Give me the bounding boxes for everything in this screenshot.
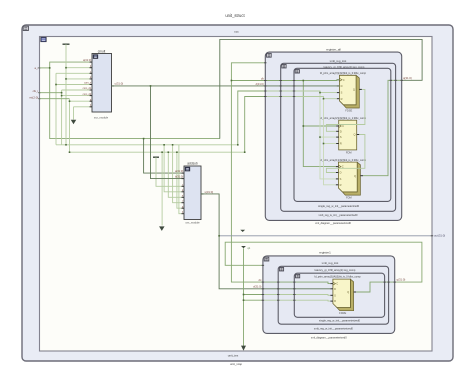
svg-text:ccc: ccc [234,29,239,33]
wire fd3 q to exit [363,80,402,175]
wire r drop inner [324,99,337,144]
svg-text:fd_prim_array(3)(4)(3)bit_is_0: fd_prim_array(3)(4)(3)bit_is_0:fdbx_comp [314,276,361,279]
net flag arrow out [240,230,245,232]
junction y branch [150,85,152,87]
svg-text:s(31:0): s(31:0) [205,190,214,194]
junction clk com_d2 [61,95,63,97]
svg-text:addsub: addsub [187,162,198,166]
port ticks r1 q exit [383,281,396,283]
ground open arrow below addsub [159,226,165,231]
wire out bus [219,235,432,237]
junction h2 pin6 [172,144,174,146]
junction h3 tail [161,151,163,153]
junction supply b [65,67,67,69]
frame sheet corner icon [41,37,46,41]
svg-text:fd_prim_array(1)(4)(3)bit_is_0: fd_prim_array(1)(4)(3)bit_is_0:fdbx_comp [320,159,367,162]
frame box C corner icon [295,70,299,73]
port ticks r1 box A [262,265,264,300]
wire addsub a feeder from feedback [144,139,182,174]
svg-text:com_d2: com_d2 [83,93,92,96]
wire addsub pin4 feeder [164,145,181,192]
junction supply d [65,78,67,80]
svg-text:R: R [340,183,342,187]
wire q out r1 [356,282,395,292]
port out tick [431,235,433,237]
svg-text:S: S [334,293,336,297]
wire p4 inside r1 [263,299,330,302]
svg-text:Q: Q [347,290,349,294]
wire bundle h2 [56,144,238,146]
wire rst riser [69,99,71,153]
svg-text:xxx_module: xxx_module [94,115,109,119]
svg-text:out(31:0): out(31:0) [434,233,445,237]
wire cmult pin d [66,78,92,80]
svg-text:FDM: FDM [346,196,352,200]
frame register1 box C corner icon [296,274,300,277]
wire register_all q feedback loop [220,39,422,138]
frame register_all box B [281,63,396,211]
svg-text:D: D [334,287,336,291]
svg-text:xmlt_reg_w_init__parameterized: xmlt_reg_w_init__parameterized0 [319,213,358,217]
svg-text:Q: Q [353,88,355,92]
wire rst vertical x244 [245,97,266,153]
wire r net inside [266,97,337,99]
wire cmult y bus to register_all d [112,85,266,87]
wire addsub pin8 feeder [179,145,182,214]
svg-text:a(31:0): a(31:0) [83,58,91,62]
wire clk fd2 branch [303,125,336,127]
net flag vertical to register1 lower ports [244,248,263,300]
svg-text:q(31:0): q(31:0) [403,76,412,80]
wire a net down to bundle [50,68,220,139]
port a_i [34,66,40,70]
junction h3 pin5 [168,151,170,153]
svg-text:Q: Q [354,174,356,178]
wire c riser [55,73,57,145]
frame register1 box B [278,266,388,324]
svg-text:xmlt_reg_w_init__parameterized: xmlt_reg_w_init__parameterized0 [314,327,353,331]
svg-text:xxx_module: xxx_module [185,221,200,225]
wire bundle h3 [70,151,245,153]
svg-text:R: R [341,97,343,101]
port ticks box C left [293,81,295,97]
port ticks q exit [390,79,403,81]
block addsub [175,162,204,225]
wire cmult pin h [74,106,93,108]
port ticks box B left [280,81,282,97]
wire s drop inner [320,93,336,138]
svg-text:D: D [341,84,343,88]
svg-text:S: S [340,177,342,181]
frame register1 box A corner icon [264,257,269,261]
junction r drop [323,98,325,100]
frame register_all box A [265,52,401,220]
port rst_n_i [29,95,40,99]
wire d inside r1 [263,288,330,290]
port clk_i [33,89,41,93]
wire cmult pin b [66,67,92,69]
wire clk vertical x237 [238,91,266,145]
port ticks r1 box B [277,282,279,300]
frame register_all box C [294,68,391,201]
junction c com_s [55,84,57,86]
wire addsub pin5 feeder [168,152,181,197]
wire h drop to open end [73,107,75,120]
junction rst g [69,100,71,102]
junction bundle a feeder [143,138,145,140]
svg-text:fd_prim_array(3)(4)(3)bit_is_0: fd_prim_array(3)(4)(3)bit_is_0:fdbx_comp [320,72,367,75]
svg-text:d(31:0): d(31:0) [253,285,261,289]
junction h2 x237 [237,144,239,146]
wire register1 q loop [225,242,422,282]
wire cmult pin com_s [56,84,92,86]
wire s fd3 branch [320,137,336,179]
frame inner sheet [40,37,433,352]
svg-text:xmlt_reg_inst: xmlt_reg_inst [322,261,339,265]
block cmult [83,49,114,119]
wire fd1 q to fd2 d [326,89,365,131]
svg-text:d(31:0): d(31:0) [256,82,264,86]
svg-text:unit_struct: unit_struct [225,13,245,18]
svg-text:y(31:0): y(31:0) [115,82,124,86]
svg-text:R: R [340,142,342,146]
svg-text:b(31:0): b(31:0) [175,175,183,179]
svg-text:D: D [340,171,342,175]
junction h2 supply [65,144,67,146]
wire tail to bottom port [243,300,245,347]
wire clk_i stub [40,92,62,94]
wire clk net inside register_all [266,79,340,82]
svg-text:cmult: cmult [98,49,106,53]
frame box A corner icon [267,53,272,57]
frame register1 box B corner icon [279,268,283,271]
svg-text:xmlt_reg_inst: xmlt_reg_inst [330,59,347,63]
svg-text:unit_tex: unit_tex [228,354,239,358]
junction h3 rst [69,151,71,153]
wire supply drop [65,44,67,145]
wire a net riser to cmult pin a [50,62,92,68]
supply tbar addsub [153,156,159,158]
wire cmult pin g [70,100,93,102]
svg-text:clk_i: clk_i [33,89,39,93]
svg-text:latency_gt_0:fill_array(1):reg: latency_gt_0:fill_array(1):reg_comp [315,268,356,272]
wire supply2 drop to pin3 [156,157,182,186]
flip-flop FD4 [330,279,356,315]
wire a_i stub [40,67,50,69]
svg-text:single_reg_w_init__parameteriz: single_reg_w_init__parameterized0 [319,318,361,322]
wire addsub pin6 feeder [173,145,182,203]
supply tbar top [63,43,70,45]
svg-text:xml_diagram__parameterized0: xml_diagram__parameterized0 [311,336,347,340]
svg-text:register_all: register_all [326,48,341,52]
junction s drop [319,92,321,94]
svg-text:unit_xtop: unit_xtop [230,362,243,366]
wire y branch to addsub [151,86,182,179]
svg-text:FDSE: FDSE [345,108,352,112]
wire addsub s down [201,194,263,289]
svg-text:S: S [341,91,343,95]
svg-text:xml_diagram__parameterized0: xml_diagram__parameterized0 [315,221,351,225]
wire clk horizontal to register_all [231,80,265,82]
junction ce clk [231,80,233,82]
frame box B corner icon [282,65,286,68]
svg-text:FDM: FDM [346,150,352,154]
svg-text:C: C [336,282,338,286]
wire clk inside r1 [263,282,330,284]
wire clk riser [61,90,63,145]
wire s net inside [266,91,337,93]
wire ce vertical x231 [231,63,265,282]
svg-text:fd_prim_array(2)(4)(3)bit_is_1: fd_prim_array(2)(4)(3)bit_is_1:fdbx_comp [320,117,367,120]
port bottom arrow [241,346,246,351]
wire r fd3 branch [324,144,336,185]
svg-text:rst(2:0): rst(2:0) [29,95,38,99]
junction s fd2 [319,136,321,138]
svg-text:C: C [343,78,345,82]
svg-text:com_d1: com_d1 [83,87,92,90]
flip-flop FD3 [336,162,363,199]
junction s out [218,235,220,237]
junction clk drop [303,80,305,82]
frame register1 box A [263,256,395,334]
wire p3 inside r1 [263,294,330,297]
junction branch p3 [243,294,245,296]
junction h3 x244 [244,151,246,153]
wire open tail below addsub [161,152,163,225]
svg-text:q(31:0): q(31:0) [397,278,406,282]
wire addsub pin7 feeder [177,152,182,208]
junction h2 pin4 [163,144,165,146]
svg-text:a(31:0): a(31:0) [175,169,183,173]
junction r fd2 [323,143,325,145]
wire d net inside [266,85,340,87]
junction a stub [49,67,51,69]
ground open arrow below cmult [71,120,77,125]
wire cmult pin c [56,72,92,74]
svg-text:a_i: a_i [34,66,38,70]
junction h3 pin7 [176,151,178,153]
frame register1 box C [294,273,384,317]
junction clk fd2 [303,125,305,127]
svg-text:Q: Q [353,133,355,137]
wire clk drop inner [303,81,336,167]
svg-text:S: S [340,135,342,139]
frame outer corner icon [23,26,28,30]
net flag arrow q loop [241,246,246,248]
junction tail [243,299,245,301]
wire cmult pin com_d1 [62,89,92,91]
svg-text:D: D [340,129,342,133]
port ticks box A left [264,63,266,97]
svg-text:R: R [334,299,336,303]
wire branch register1 p3 [244,294,263,296]
wire fd2 q to fd3 d [326,135,365,173]
flip-flop FD2 [336,120,359,154]
svg-text:com_s: com_s [84,82,92,85]
junction clk [61,92,63,94]
port ticks r1 box C [293,282,295,300]
svg-text:register1: register1 [319,251,331,255]
wire cmult pin com_d2 [62,95,92,97]
wire rst stub [40,98,70,100]
flip-flop FD1 [337,75,362,112]
svg-text:single_reg_w_init__parameteriz: single_reg_w_init__parameterized0 [318,204,360,208]
svg-text:FDRE: FDRE [339,311,346,315]
frame outer diagram box [22,25,453,361]
